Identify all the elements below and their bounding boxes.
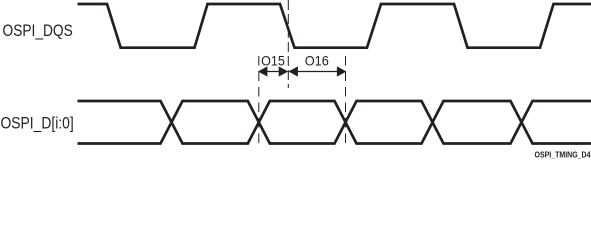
dimension O16 arrow <box>289 67 345 76</box>
svg-text:O16: O16 <box>305 53 329 69</box>
svg-text:O15: O15 <box>261 53 285 69</box>
svg-text:OSPI_D[i:0]: OSPI_D[i:0] <box>1 115 74 133</box>
svg-text:OSPI_DQS: OSPI_DQS <box>3 22 73 40</box>
wire OSPI_DQS clock waveform <box>78 4 591 48</box>
dashed reference line at OSPI_DQS falling edge (O15/O16 boundary) <box>287 0 289 88</box>
dashed reference line at second data crossover (O16 right bound) <box>345 56 347 145</box>
dimension O15 arrow <box>259 67 288 76</box>
svg-text:OSPI_TMING_D4: OSPI_TMING_D4 <box>535 150 591 159</box>
dashed reference line at first data crossover (O15 left bound) <box>258 56 260 145</box>
wire OSPI_D[i:0] data bus lower trace <box>78 101 591 144</box>
wire OSPI_D[i:0] data bus upper trace <box>78 101 591 144</box>
